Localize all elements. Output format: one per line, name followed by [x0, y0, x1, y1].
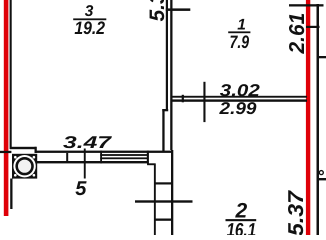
dim tick on wall — [66, 153, 68, 161]
ladder rung 2 — [155, 219, 173, 221]
wall room3/room1 left line upper — [166, 0, 168, 110]
room3 bottom wall line B — [37, 151, 173, 153]
svg-text:19.2: 19.2 — [74, 18, 105, 38]
red boundary line right — [306, 0, 310, 235]
ladder right rail — [171, 150, 173, 235]
dimension line 3.02/2.99 — [203, 82, 205, 122]
wall left lower (below vent square) — [10, 179, 12, 210]
svg-text:16.1: 16.1 — [226, 220, 256, 235]
window hatch band — [100, 151, 148, 164]
ladder left rail — [154, 165, 156, 236]
tick room1 top — [166, 8, 191, 11]
svg-text:7.9: 7.9 — [230, 32, 250, 52]
tick top right — [289, 4, 324, 6]
svg-text:5: 5 — [75, 178, 87, 200]
svg-text:2.61: 2.61 — [285, 13, 309, 55]
wall right — [317, 4, 320, 235]
wall through ladder — [135, 200, 193, 202]
nook horizontal — [147, 163, 156, 165]
ladder rung 1 — [155, 182, 173, 184]
svg-text:5.37: 5.37 — [284, 190, 308, 235]
tick through red line — [0, 151, 11, 153]
svg-text:2.99: 2.99 — [218, 99, 257, 118]
wall left upper — [10, 0, 12, 149]
svg-text:3.47: 3.47 — [63, 133, 113, 152]
fraction bar room1 — [228, 31, 250, 33]
fraction bar room2 — [226, 219, 257, 221]
tick right lower — [317, 178, 326, 180]
nook vertical right of band — [147, 151, 149, 165]
corridor wall bottom line — [172, 99, 308, 101]
dimension line 3.47/5 — [84, 149, 86, 179]
svg-text:3.02: 3.02 — [220, 81, 261, 100]
tick right outer — [319, 56, 326, 58]
fraction bar room3 — [73, 18, 106, 20]
room3 bottom wall line A — [10, 147, 37, 149]
corridor wall top line — [172, 96, 308, 98]
red boundary line left — [4, 0, 9, 216]
svg-text:5.3: 5.3 — [146, 0, 169, 22]
wall room3/room2 left line — [162, 109, 164, 151]
room3 bottom wall line C — [37, 161, 149, 163]
wall step — [35, 147, 37, 153]
tick on corridor wall — [182, 95, 184, 103]
door circle marker right — [319, 171, 323, 175]
wall step tick — [162, 109, 168, 111]
wall room3/room1 right line — [170, 0, 172, 150]
vent shaft square — [12, 154, 37, 179]
tick right upper — [306, 26, 320, 28]
